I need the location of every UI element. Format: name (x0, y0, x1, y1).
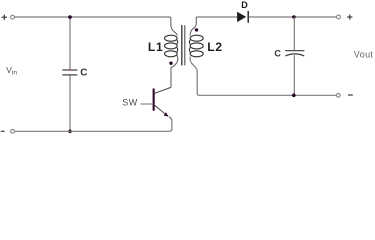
svg-text:SW: SW (122, 97, 137, 107)
minus sign output (348, 94, 353, 96)
wire input cap top (69, 17, 71, 70)
wire output cap top (293, 17, 295, 50)
wire L2 bottom lead to secondary rail (190, 57, 336, 96)
wire collector lead (155, 87, 172, 93)
transformer core (182, 25, 185, 66)
svg-text:C: C (274, 48, 281, 58)
plus sign output (347, 14, 352, 19)
emitter arrowhead (164, 112, 169, 116)
svg-text:C: C (80, 68, 87, 79)
inductor L2 winding (189, 35, 203, 57)
minus sign input (1, 130, 5, 132)
wire L2 top lead (190, 17, 196, 36)
wire top rail to diode (196, 16, 237, 18)
transistor SW base bar (153, 89, 155, 111)
svg-text:L1: L1 (148, 40, 164, 54)
wire output cap bottom (293, 55, 295, 95)
inductor L1 winding (165, 35, 178, 57)
plus sign input (2, 15, 7, 20)
diode D (237, 11, 248, 23)
svg-text:in: in (12, 70, 17, 77)
wire base lead (141, 103, 153, 105)
node junction bottom-left (68, 130, 72, 134)
node junction bottom-right (292, 94, 296, 98)
node L2 polarity dot (195, 28, 198, 31)
wire L1 bottom hook lead (171, 55, 178, 87)
node output minus terminal (336, 93, 340, 97)
svg-text:D: D (241, 0, 248, 10)
wire emitter lead (155, 105, 168, 116)
node input plus terminal (11, 15, 15, 19)
wire L1 top lead (171, 17, 177, 36)
node junction top-left (68, 15, 72, 19)
node junction top-right (292, 15, 296, 19)
node L1 polarity dot (169, 62, 172, 65)
capacitor C2 output (285, 51, 304, 56)
svg-text:L2: L2 (207, 40, 223, 54)
wire top-left rail (15, 16, 171, 18)
wire bottom-left rail and emitter riser (15, 117, 172, 132)
wire input cap bottom (69, 75, 71, 131)
node output plus terminal (337, 15, 341, 19)
svg-text:out: out (360, 50, 374, 60)
wire diode to output plus (249, 16, 337, 18)
node input minus terminal (11, 129, 15, 133)
capacitor C1 input (62, 69, 77, 75)
